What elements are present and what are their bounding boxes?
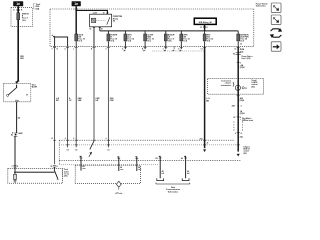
svg-text:}: } [233, 81, 235, 86]
splice diamond [116, 181, 121, 187]
inline connector X2 [236, 52, 241, 54]
fuse F0 SWITCH [17, 13, 20, 20]
module dashed line top [59, 139, 234, 141]
pins at fuse block bottom edge [53, 46, 56, 48]
pin A7 [237, 116, 240, 118]
fuse F5 BCK/UP [165, 31, 167, 34]
icon zoom-out box [271, 15, 281, 24]
svg-text:WH: WH [20, 58, 24, 60]
wire from jumper A down to liftgate sw [54, 46, 56, 164]
BCM wire hook 1 [80, 156, 81, 170]
cross wire to switch [15, 171, 54, 174]
fuse F7 RTD [204, 31, 206, 34]
svg-text:C1: C1 [245, 88, 247, 90]
svg-text:×: × [237, 104, 239, 108]
svg-text:PWR/TRN: PWR/TRN [113, 16, 123, 18]
fuse F4 CLSTR [144, 31, 146, 34]
svg-text:RD/: RD/ [20, 56, 24, 58]
module dotted line 4 [59, 164, 158, 166]
wire from box1 down to switch [17, 6, 19, 83]
relay dotted link [97, 19, 106, 21]
svg-text:(X2)H: (X2)H [240, 67, 245, 69]
pin on wire A at boundary [53, 139, 56, 141]
svg-text:mm: mm [120, 169, 124, 171]
wire junction to relay pin 30 [76, 10, 107, 14]
wire 2 down to module [67, 46, 69, 147]
svg-text:Relay: Relay [113, 18, 119, 20]
BCM wire hook 3 [135, 157, 136, 171]
junction node [14, 171, 16, 173]
long wire from fuse F7 down [203, 46, 206, 148]
relay output to bus [99, 27, 101, 31]
wire 3 down to module [75, 46, 77, 147]
module dotted line 2 [59, 144, 236, 146]
fuse F3 INFO [124, 31, 126, 34]
wire continue to bottom left box [14, 136, 16, 169]
dashed pass-through walls [233, 122, 235, 132]
pin 3 [237, 61, 240, 63]
inline connector on left wire [14, 132, 18, 134]
svg-text:(X2): (X2) [251, 86, 255, 88]
wire box3 to bus [203, 24, 206, 31]
data wire hook right [184, 156, 185, 178]
switch arm right side [53, 167, 55, 170]
wire 5 down to module [107, 46, 109, 147]
fuse F1 IGN-E [75, 34, 78, 41]
switch inside module on wire 4 [92, 139, 95, 141]
pins at module line crossing [203, 139, 206, 141]
actuation arrow [89, 152, 92, 157]
fuse F6 WPR [180, 31, 182, 34]
module dashed line bottom [59, 159, 241, 161]
dashed box: liftgate release actuator [8, 169, 63, 184]
wire into box left [14, 167, 16, 174]
splice circle in cluster [235, 85, 240, 90]
fuse F2 ECM/TR [107, 31, 109, 34]
dashed box: body control module [75, 165, 140, 183]
pin pair lower [237, 132, 240, 134]
relay pin ticks top [93, 12, 95, 14]
pin at switch box entry [15, 81, 18, 83]
pins where wires meet module [66, 139, 69, 141]
svg-text:mm: mm [82, 168, 86, 170]
bus wire feeding fuses [100, 30, 238, 32]
pin at fuse block entry [75, 8, 78, 10]
svg-text:y/Under hood: y/Under hood [242, 120, 253, 122]
svg-text:X2: X2 [233, 54, 235, 56]
arrow end of wire 238 [237, 154, 240, 156]
svg-text:S/B Relay 30: S/B Relay 30 [199, 22, 213, 24]
fuse F8 BATSAVR [237, 31, 239, 34]
svg-text:Cam X (X2): Cam X (X2) [241, 58, 250, 60]
connector box 1 (page ref) [13, 1, 23, 6]
svg-text:3: 3 [18, 81, 19, 83]
pins entering bottom-left box [13, 164, 16, 166]
icon forward arrow box [271, 42, 281, 51]
module left dashed edge [58, 140, 60, 165]
stub pins under fuses F3-F6 [124, 46, 126, 49]
relay K1 box [90, 14, 112, 27]
junction node [75, 10, 77, 12]
relay coil [91, 18, 95, 22]
wire from switch down to bottom-left box [16, 102, 18, 133]
dashed box: instrument cluster [208, 78, 264, 94]
relay switch arm [107, 17, 110, 24]
svg-text:1n: 1n [16, 2, 20, 6]
pin A top of fuse F0 [17, 8, 20, 10]
svg-text:L-G: L-G [206, 98, 210, 100]
bracket [156, 183, 190, 185]
relay pins bottom [93, 27, 95, 29]
relay coil wire down [93, 27, 95, 47]
jumper loop in fuse block [55, 37, 68, 46]
actuator coil [13, 174, 16, 179]
pin A22 under cluster [237, 95, 240, 97]
connector box 3: RAP relay feed [194, 18, 216, 24]
pin at switch box exit [15, 99, 18, 101]
svg-text:(X3): (X3) [64, 176, 68, 178]
arrow end of wire 204 [203, 150, 206, 152]
switch arm and contact [7, 94, 9, 96]
leader to bulkhead note [240, 119, 246, 121]
svg-text:BLKR: BLKR [32, 87, 38, 89]
pin at dashed line crossing [237, 144, 240, 146]
icon swap arrows [271, 29, 281, 31]
svg-text:1n: 1n [74, 2, 78, 6]
long wire from fuse F8 down [237, 46, 240, 151]
shoe left [157, 178, 164, 180]
BCM wire hook 2 [117, 157, 118, 171]
wire 4 down to module switch [93, 46, 95, 141]
shoe right [182, 178, 189, 180]
data wire hook left [159, 156, 160, 178]
ground symbol [14, 179, 16, 181]
big dashed box: underhood fuse block [50, 9, 254, 46]
svg-text:(X2): (X2) [243, 153, 247, 155]
svg-text:mm: mm [138, 169, 142, 171]
dotted leader to cluster [152, 50, 205, 52]
icon zoom-in box [271, 3, 281, 12]
wire from box2 into fuse block [75, 6, 78, 34]
label splice [118, 187, 120, 189]
dashed box: lock switch [4, 83, 31, 101]
connector box 2 (page ref) [72, 1, 81, 6]
svg-text:PNK: PNK [110, 100, 115, 102]
dashed box: theft deterrent fuse block [11, 8, 32, 27]
svg-text:1: 1 [18, 100, 19, 102]
svg-text:(X2)H: (X2)H [240, 113, 245, 115]
